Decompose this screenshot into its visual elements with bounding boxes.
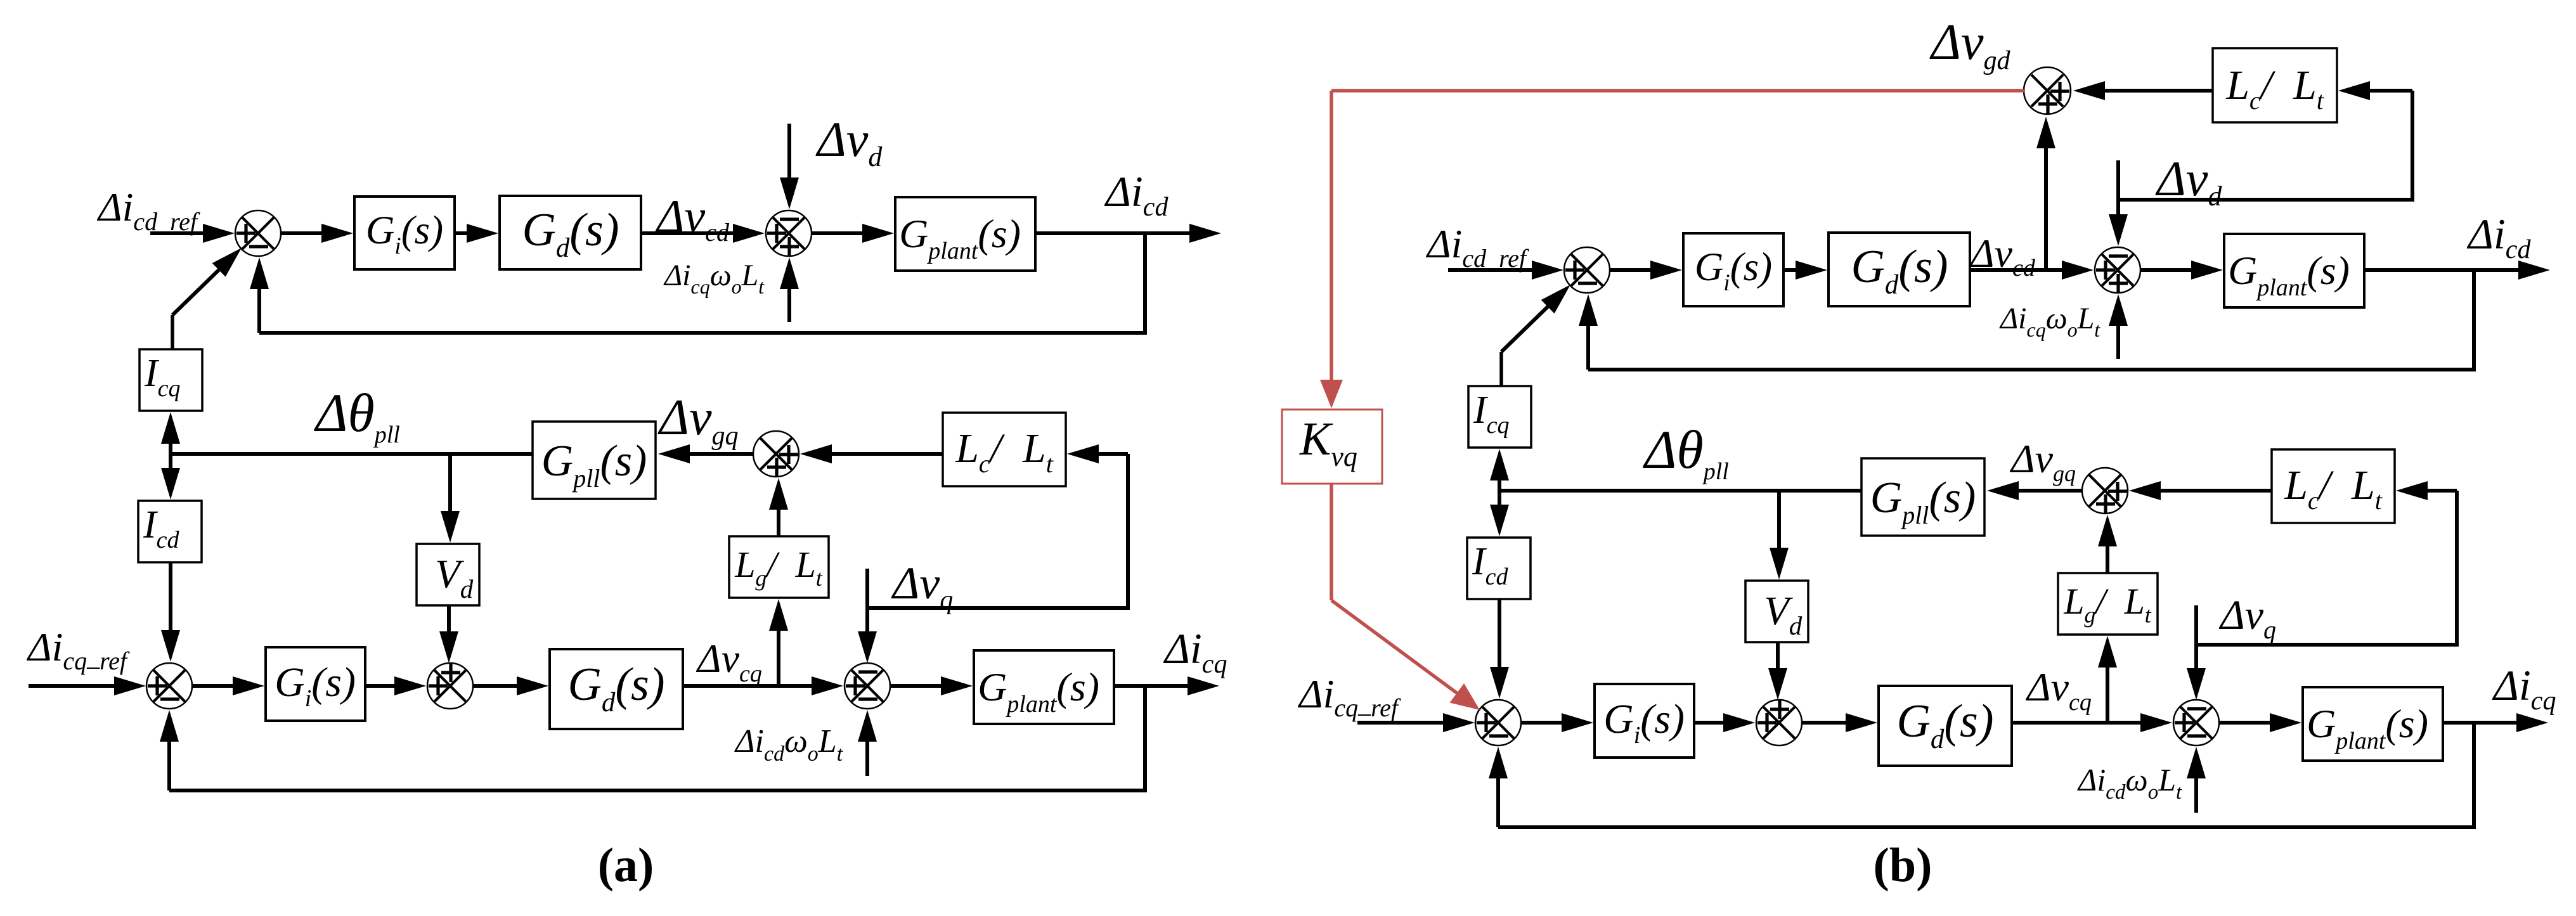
- block Gplant(s) (b q-row): [2303, 687, 2443, 761]
- svg-text:t: t: [816, 565, 823, 591]
- wire Dv_d disturbance arrow (b): [2109, 160, 2128, 246]
- node Di_cd_ref input label (a): [96, 184, 200, 236]
- svg-text:ω: ω: [710, 259, 732, 292]
- wire q-axis feedback (a): [160, 686, 1145, 790]
- node Di_cd*wo*Lt label (b q-row): [2077, 762, 2182, 804]
- svg-text:cq: cq: [691, 275, 710, 298]
- svg-text:Δi: Δi: [1999, 302, 2027, 335]
- wire S5 to Gd (b q-row): [1802, 713, 1877, 732]
- wire branch theta to Vd (b): [1770, 491, 1789, 579]
- block Lg/Lt (b): [2058, 573, 2158, 635]
- wire Icd to S4 (b): [1490, 599, 1509, 699]
- wire branch theta to Vd (a): [441, 454, 460, 543]
- wire vcq branch to Lg/Lt (b): [2098, 636, 2117, 723]
- block Gpll(s) (a): [533, 422, 656, 499]
- node Dv_gq label (a): [657, 390, 739, 451]
- svg-text:Δv: Δv: [2009, 436, 2054, 481]
- wire coupling Di_cq*wo*Lt arrow (b d-row): [2109, 294, 2128, 359]
- svg-text:Δv: Δv: [815, 112, 869, 167]
- svg-text:ref: ref: [100, 647, 130, 675]
- wire S6 to Gplant (a q-row): [890, 676, 973, 695]
- summing junction S6 b (plant input q: - top, + left, - bottom): [2173, 700, 2219, 745]
- svg-text:pll: pll: [1702, 458, 1729, 485]
- wire Dv_q to Lc/Lt input (a): [867, 444, 1128, 608]
- svg-text:c: c: [979, 449, 990, 478]
- block Icd (b): [1467, 538, 1531, 599]
- svg-text:(s): (s): [1056, 664, 1099, 709]
- wire S4 to Gi (a q-row): [192, 676, 264, 695]
- svg-text:L: L: [2158, 762, 2176, 797]
- summing junction S2 a (plant input d: - top, + left, + bottom): [766, 210, 812, 256]
- svg-text:(s): (s): [1640, 696, 1685, 742]
- wire S3 to Gpll (a): [658, 444, 753, 463]
- svg-text:Δθ: Δθ: [314, 382, 375, 443]
- wire Vd to S5 (a): [439, 605, 458, 663]
- wire Vd to S5 (b): [1768, 642, 1787, 700]
- wire theta line down-arrow into Icd (b): [1490, 491, 1509, 536]
- node Di_cq*wo*Lt label (b d-row): [1999, 302, 2100, 341]
- wire Dv_d branch to Lc/Lt input (b): [2117, 81, 2412, 200]
- svg-text:d: d: [868, 141, 883, 172]
- svg-text:Δi: Δi: [663, 259, 691, 292]
- wire red Dv_gd line from Kvq column to S0: [1331, 89, 2024, 93]
- summing junction S6 a (plant input q: - top, + left, - bottom): [845, 663, 890, 709]
- caption (b): [1874, 839, 1932, 892]
- wire S1 to Gi (b d-row): [1610, 261, 1682, 280]
- svg-text:Δθ: Δθ: [1643, 419, 1704, 480]
- wire vcq branch to Lg/Lt (a): [769, 599, 788, 686]
- svg-text:G: G: [366, 208, 395, 252]
- node Di_cd output label (b): [2466, 210, 2531, 264]
- wire red down into Kvq: [1320, 91, 1343, 408]
- svg-text:g: g: [755, 565, 767, 591]
- svg-text:Δv: Δv: [2155, 151, 2208, 206]
- svg-text:G: G: [275, 659, 305, 706]
- summing junction S5 a (Vd injection: + top, + left): [427, 663, 473, 709]
- svg-text:Δv: Δv: [696, 636, 740, 681]
- svg-text:_: _: [1357, 690, 1371, 718]
- svg-text:L: L: [2225, 62, 2249, 108]
- block Lg/Lt (a): [729, 536, 829, 598]
- wire Di_cd output (a d-row): [1035, 224, 1221, 243]
- svg-text:pll: pll: [571, 464, 600, 493]
- node Dv_gq label (b): [2009, 436, 2076, 486]
- svg-text:(s): (s): [978, 211, 1021, 256]
- wire theta line up-arrow into Icq (b): [1490, 449, 1509, 491]
- block Icd (a): [138, 501, 202, 562]
- svg-text:d: d: [1931, 725, 1945, 754]
- block Lc/Lt (b top d-row): [2213, 48, 2337, 122]
- svg-text:Δv: Δv: [1929, 15, 1984, 70]
- svg-text:q: q: [940, 586, 953, 615]
- svg-text:L: L: [2351, 462, 2375, 508]
- block Gpll(s) (b): [1861, 458, 1984, 536]
- svg-text:L: L: [734, 544, 755, 585]
- svg-text:t: t: [1046, 449, 1054, 478]
- svg-text:t: t: [2375, 486, 2383, 515]
- wire Gi to Gd (a d-row): [455, 224, 498, 243]
- wire Dv_q disturbance arrow (a): [858, 569, 877, 663]
- svg-text:G: G: [1897, 695, 1931, 747]
- svg-text:plant: plant: [2334, 728, 2386, 754]
- svg-text:(s): (s): [600, 437, 647, 486]
- wire theta line up-arrow into Icq (a): [161, 412, 180, 454]
- wire coupling Di_cq*wo*Lt arrow (a d-row): [780, 257, 799, 322]
- svg-text:Δv: Δv: [2218, 592, 2264, 638]
- svg-text:(s): (s): [2385, 701, 2428, 746]
- node Di_cq output label (a): [1163, 624, 1227, 679]
- svg-text:i: i: [1634, 722, 1641, 749]
- block Gplant(s) (a q-row): [974, 650, 1114, 724]
- svg-text:Δi: Δi: [96, 184, 133, 229]
- wire Lc/Lt to S3 (a): [800, 444, 943, 463]
- svg-text:L: L: [795, 544, 816, 585]
- wire Di_cd output (b d-row): [2364, 261, 2550, 280]
- svg-text:cq: cq: [158, 375, 181, 402]
- svg-text:Δi: Δi: [1104, 167, 1143, 216]
- node Dv_cq label (b): [2025, 664, 2092, 716]
- block Gi(s) (b d-row): [1683, 233, 1783, 306]
- summing junction S5 b (Vd injection: + top, + left): [1756, 700, 1802, 745]
- summing junction S3 b (v_gq: + right, + bottom): [2082, 468, 2128, 513]
- svg-text:Δi: Δi: [1297, 671, 1334, 716]
- svg-text:cd: cd: [1143, 193, 1169, 222]
- wire Di_cd_ref input (b d-row): [1448, 261, 1563, 280]
- svg-text:L: L: [2124, 581, 2145, 622]
- wire Dv_q to Lc/Lt input (b): [2196, 481, 2457, 645]
- svg-text:ω: ω: [2046, 302, 2068, 335]
- svg-text:d: d: [556, 233, 570, 263]
- svg-text:vq: vq: [1331, 441, 1357, 472]
- node D theta_pll label (b): [1643, 419, 1729, 485]
- block Vd (b): [1745, 581, 1808, 642]
- svg-text:G: G: [1870, 474, 1903, 522]
- svg-text:(a): (a): [598, 839, 654, 892]
- svg-text:c: c: [2249, 86, 2261, 115]
- wire Di_cq_ref input (a q-row): [29, 676, 146, 695]
- wire Gi to Gd (b d-row): [1783, 261, 1827, 280]
- wire Dtheta_pll line (b): [1499, 489, 1861, 493]
- node Dv_cd label (a): [655, 191, 730, 247]
- svg-text:cq: cq: [1334, 693, 1358, 722]
- svg-text:K: K: [1299, 413, 1333, 465]
- summing junction S2 b (plant input d: - top, + left, + bottom): [2095, 247, 2140, 293]
- svg-text:cd: cd: [2106, 781, 2126, 804]
- svg-text:Δi: Δi: [2492, 661, 2531, 709]
- svg-text:(s): (s): [569, 204, 619, 256]
- svg-text:gq: gq: [2053, 461, 2076, 486]
- wire S1 to Gi (a d-row): [281, 224, 353, 243]
- svg-text:o: o: [808, 742, 819, 766]
- svg-text:t: t: [837, 742, 844, 766]
- summing junction S1 b (d-axis error, + left / - bottom): [1564, 247, 1610, 293]
- svg-text:cd: cd: [1485, 564, 1509, 590]
- node Dv_q label (b): [2218, 592, 2276, 644]
- block Gi(s) (a d-row): [354, 197, 455, 269]
- svg-text:cq: cq: [63, 647, 87, 675]
- node Dv_d label (a): [815, 112, 883, 172]
- svg-text:L: L: [818, 723, 837, 759]
- wire Lc/Lt to S0 (b): [2073, 81, 2213, 100]
- wire Icq to S1 diagonal (b): [1501, 285, 1570, 386]
- wire Gd to S2 (a d-row): [641, 224, 765, 243]
- svg-text:G: G: [899, 211, 928, 256]
- wire S6 to Gplant (b q-row): [2219, 713, 2301, 732]
- svg-text:G: G: [1603, 696, 1634, 742]
- svg-text:ω: ω: [2125, 762, 2147, 797]
- svg-text:cd: cd: [764, 742, 785, 766]
- svg-text:G: G: [978, 664, 1007, 709]
- node D theta_pll label (a): [314, 382, 400, 448]
- svg-text:gq: gq: [712, 422, 739, 451]
- summing junction S1 a (d-axis error, + left / - bottom): [235, 210, 281, 256]
- svg-text:cq: cq: [2531, 687, 2556, 716]
- svg-text:o: o: [732, 275, 742, 298]
- wire Icd to S4 (a): [161, 562, 180, 662]
- block Gd(s) (a q-row): [550, 649, 683, 729]
- svg-text:t: t: [2094, 318, 2100, 341]
- svg-text:cq: cq: [2069, 689, 2092, 716]
- node Di_cq_ref input label (b): [1297, 671, 1401, 722]
- svg-text:i: i: [1723, 270, 1730, 296]
- svg-text:L: L: [2293, 62, 2317, 108]
- svg-text:pll: pll: [1900, 501, 1929, 529]
- summing junction S4 a (q-axis error: + left, - bottom): [146, 663, 192, 709]
- svg-text:q: q: [2263, 616, 2276, 644]
- svg-text:L: L: [1022, 425, 1046, 472]
- block Gplant(s) (b d-row): [2224, 234, 2364, 307]
- wire Di_cd_ref input (a d-row): [150, 224, 235, 243]
- wire S2 to Gplant (b d-row): [2140, 261, 2223, 280]
- node Di_cq output label (b): [2492, 661, 2556, 716]
- svg-text:c: c: [2308, 486, 2319, 515]
- wire red Kvq to S4b diagonal: [1331, 484, 1480, 710]
- wire junction to S0 vertical arrow (b): [2036, 117, 2055, 270]
- wire Gd to S2 (b d-row): [1970, 261, 2094, 280]
- svg-text:G: G: [541, 437, 574, 486]
- wire Gd to S6 (b q-row): [2012, 713, 2172, 732]
- svg-text:cd: cd: [2506, 235, 2532, 264]
- svg-text:G: G: [2228, 248, 2257, 293]
- block Gplant(s) (a d-row): [895, 197, 1035, 271]
- svg-text:d: d: [2208, 181, 2222, 212]
- wire Di_cq_ref input (b q-row): [1357, 713, 1475, 732]
- svg-text:G: G: [568, 659, 602, 711]
- node Dv_q label (a): [891, 558, 953, 615]
- wire coupling Di_cd*wo*Lt arrow (b q-row): [2187, 747, 2206, 813]
- wire Gd to S6 (a q-row): [683, 676, 843, 695]
- svg-text:t: t: [2317, 86, 2324, 115]
- svg-text:Δv: Δv: [657, 390, 712, 446]
- wire Lg/Lt to S3 (b): [2098, 515, 2117, 573]
- svg-text:o: o: [2068, 318, 2078, 341]
- svg-text:L: L: [2284, 462, 2308, 508]
- svg-text:t: t: [2145, 602, 2152, 628]
- svg-text:_: _: [86, 643, 100, 671]
- wire Dv_q disturbance arrow (b): [2187, 605, 2206, 700]
- svg-text:L: L: [955, 425, 979, 472]
- wire Lg/Lt to S3 (a): [769, 478, 788, 536]
- svg-text:plant: plant: [1005, 691, 1058, 718]
- wire d-axis feedback (a): [250, 233, 1145, 333]
- svg-text:(s): (s): [1929, 474, 1976, 522]
- svg-text:Δi: Δi: [1163, 624, 1202, 673]
- svg-text:i: i: [305, 685, 312, 712]
- wire Di_cq output (b q-row): [2443, 713, 2548, 732]
- node Di_cd_ref input label (b): [1425, 221, 1529, 273]
- svg-text:Δi: Δi: [2466, 210, 2506, 258]
- svg-text:plant: plant: [2255, 274, 2308, 301]
- block Gd(s) (b d-row): [1828, 233, 1970, 306]
- svg-text:d: d: [460, 574, 474, 603]
- block Vd (a): [417, 544, 479, 605]
- node Di_cd*wo*Lt label (a q-row): [734, 723, 844, 766]
- svg-text:t: t: [2176, 781, 2182, 804]
- svg-text:gd: gd: [1984, 46, 2011, 75]
- summing junction S3 a (v_gq: + right, + bottom): [753, 431, 799, 477]
- svg-text:Δi: Δi: [26, 624, 63, 669]
- svg-text:Δi: Δi: [734, 723, 764, 759]
- wire q-axis feedback (b): [1489, 723, 2474, 827]
- wire Gi to S5 (b q-row): [1694, 713, 1755, 732]
- wire d-axis feedback (b): [1579, 270, 2474, 370]
- svg-text:cq: cq: [739, 661, 762, 687]
- wire Icq to S1 diagonal (a): [172, 248, 242, 349]
- svg-text:L: L: [2077, 302, 2095, 335]
- svg-text:pll: pll: [373, 422, 400, 448]
- svg-text:L: L: [2063, 581, 2084, 622]
- svg-text:t: t: [758, 275, 765, 298]
- svg-text:o: o: [2148, 781, 2159, 804]
- wire Lc/Lt to S3 (b): [2129, 481, 2272, 500]
- svg-text:(s): (s): [1730, 245, 1772, 289]
- wire S2 to Gplant (a d-row): [812, 224, 894, 243]
- svg-text:(s): (s): [311, 659, 356, 706]
- svg-text:G: G: [522, 204, 556, 256]
- svg-text:(s): (s): [615, 659, 664, 711]
- block Kvq (red box): [1282, 410, 1382, 484]
- svg-text:G: G: [1695, 245, 1724, 289]
- block Gi(s) (b q-row): [1595, 684, 1694, 758]
- svg-text:(s): (s): [1898, 241, 1948, 293]
- svg-text:(s): (s): [2307, 248, 2350, 293]
- svg-text:Δi: Δi: [1425, 221, 1462, 266]
- svg-text:d: d: [1885, 270, 1899, 300]
- block Lc/Lt (b pll row): [2272, 449, 2395, 523]
- svg-text:ω: ω: [784, 723, 808, 759]
- node Di_cd output label (a): [1104, 167, 1168, 222]
- block Icq (b): [1468, 386, 1531, 448]
- node Dv_cd label (b): [1969, 231, 2036, 281]
- svg-text:plant: plant: [926, 238, 979, 264]
- svg-text:d: d: [1789, 611, 1803, 640]
- wire theta line down-arrow into Icd (a): [161, 454, 180, 500]
- svg-text:cd: cd: [157, 527, 180, 553]
- block Gd(s) (a d-row): [500, 196, 641, 269]
- svg-text:Δv: Δv: [2025, 664, 2069, 709]
- svg-text:i: i: [394, 233, 401, 259]
- svg-text:d: d: [602, 688, 616, 718]
- svg-text:cq: cq: [1487, 412, 1510, 439]
- wire S5 to Gd (a q-row): [473, 676, 548, 695]
- block Gi(s) (a q-row): [266, 647, 365, 721]
- svg-text:g: g: [2084, 602, 2095, 628]
- svg-text:G: G: [2307, 701, 2336, 746]
- node Di_cq_ref input label (a): [26, 624, 130, 675]
- svg-text:(b): (b): [1874, 839, 1932, 892]
- svg-text:cq: cq: [2027, 318, 2046, 341]
- node Dv_d label (b): [2155, 151, 2222, 212]
- block Lc/Lt (a pll row): [943, 413, 1066, 486]
- svg-text:Δv: Δv: [891, 558, 940, 609]
- node Dv_gd label (b): [1929, 15, 2011, 75]
- node Dv_cq label (a): [696, 636, 762, 687]
- block Icq (a): [139, 349, 202, 411]
- summing junction S0 b (v_gd: + right, + bottom): [2024, 67, 2071, 114]
- svg-text:L: L: [741, 259, 759, 292]
- wire coupling Di_cd*wo*Lt arrow (a q-row): [858, 710, 877, 776]
- svg-text:cq: cq: [1202, 650, 1227, 679]
- wire S4 to Gi (b q-row): [1521, 713, 1593, 732]
- svg-text:(s): (s): [401, 208, 443, 252]
- summing junction S4 b (q-axis error: + left, - bottom): [1475, 700, 1521, 745]
- wire Di_cq output (a q-row): [1114, 676, 1219, 695]
- block Gd(s) (b q-row): [1879, 686, 2012, 766]
- caption (a): [598, 839, 654, 892]
- wire Dv_d disturbance arrow (a): [780, 124, 799, 209]
- svg-text:ref: ref: [1371, 693, 1401, 722]
- svg-text:Δi: Δi: [2077, 762, 2106, 797]
- wire S3 to Gpll (b): [1987, 481, 2082, 500]
- svg-text:G: G: [1851, 241, 1885, 293]
- wire Gi to S5 (a q-row): [365, 676, 426, 695]
- wire Dtheta_pll line (a): [171, 452, 533, 456]
- svg-text:(s): (s): [1944, 695, 1993, 747]
- node Di_cq*wo*Lt label (a d-row): [663, 259, 765, 298]
